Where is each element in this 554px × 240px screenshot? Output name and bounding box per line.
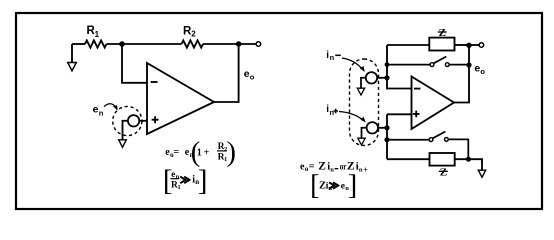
ground (left, under R1) [68,63,77,71]
output terminal (open circle) [256,42,261,47]
equation eo = Z in- or Z in+ [300,160,368,174]
wire: opamp output [214,44,239,102]
wire: switch to output bus [449,64,469,66]
wire: inverting bus [387,45,412,89]
wire: top feedback to Z [387,44,429,46]
wire: in+ to ground [362,128,367,138]
output terminal (open circle, right) [479,43,484,48]
wire: inverting feedback drop [122,44,147,83]
svg-text:n: n [99,109,104,118]
dashed highlight circle around en [113,106,142,135]
node: bottom right junction [466,157,471,162]
wire: en source to ground [123,121,128,140]
wire: stub to terminal [469,44,479,46]
node: switch line on bus [466,62,471,67]
dashed capsule around in sources [350,59,379,146]
svg-text:+: + [363,165,368,174]
switch S1 (top) [430,63,434,67]
leader arrow from en label [104,104,116,108]
node: in+ junction [384,125,389,130]
wire: bottom Z line [387,158,430,160]
impedance Z (top box) [429,38,454,51]
op-amp U2 [412,77,455,130]
svg-text:Z: Z [440,166,447,178]
resistor R2 [182,40,204,47]
op-amp U1 [147,63,214,134]
wire: bottom switch to node [448,139,468,158]
svg-text:e: e [171,169,175,179]
leader arrow from in+ label [339,112,364,121]
svg-text:e: e [93,104,99,116]
wire: left drop to ground [71,44,73,63]
wire: bottom switch line [387,139,429,141]
wire: bottom Z to ground [455,159,482,170]
wire: top rail middle segment [107,43,182,45]
svg-text:o: o [250,73,255,82]
wire: noninverting bus [387,114,412,159]
wire: top rail left segment [72,43,85,45]
plus sign U2 [413,111,420,118]
node: switch line on left bus [385,62,390,67]
ground (under in+) [358,138,365,145]
minus sign U2 [414,88,421,90]
svg-text:=: = [173,147,179,158]
wire: top rail right segment [203,43,256,45]
voltage noise source en (circle) [128,115,139,126]
ground (under en source) [119,140,127,148]
equation eo = en (1 + R2/R1) [165,137,236,168]
current noise source in- (circle) [366,72,377,83]
svg-text:]: ] [198,165,208,197]
wire: output bus vertical [454,45,469,103]
impedance Z (bottom box) [430,153,455,166]
wire: top switch line [387,64,430,66]
wire: Z to output node [455,44,470,46]
svg-text:n: n [359,166,363,173]
svg-text:2: 2 [191,30,196,39]
minus sign U1 [151,81,158,83]
current noise source in+ (circle) [367,122,378,133]
svg-text:n: n [330,166,334,173]
ground (under in-) [357,88,364,95]
svg-text:n: n [330,108,335,117]
svg-text:1: 1 [197,148,202,159]
svg-text:Z: Z [439,27,446,39]
resistor R1 [85,40,107,47]
wire: in- to ground [361,78,366,88]
svg-text:or: or [340,162,347,172]
node: in- junction [384,75,389,80]
leader arrow from in- label [342,58,363,70]
equation [en/R1 >> in] [163,165,208,197]
svg-text:1: 1 [95,30,100,39]
border frame [16,13,542,209]
svg-text:+: + [204,147,210,158]
node: R1-R2 junction [119,41,125,47]
plus sign U1 [152,116,159,123]
switch S2 (bottom) [429,138,433,142]
ground (bottom right) [478,170,485,177]
node: R2-output junction [236,41,242,47]
wire: in+ to bus [378,127,387,129]
node: bottom switch junction [384,137,389,142]
svg-text:n: n [330,53,335,62]
equation [Z in >> en] [310,169,357,201]
svg-text:): ) [227,137,237,168]
wire: en source to + input [139,120,147,122]
svg-text:1: 1 [177,184,180,191]
wire: in- to bus [377,77,387,79]
node: top output junction [466,43,471,48]
svg-text:]: ] [348,169,358,201]
svg-text:o: o [480,67,485,76]
